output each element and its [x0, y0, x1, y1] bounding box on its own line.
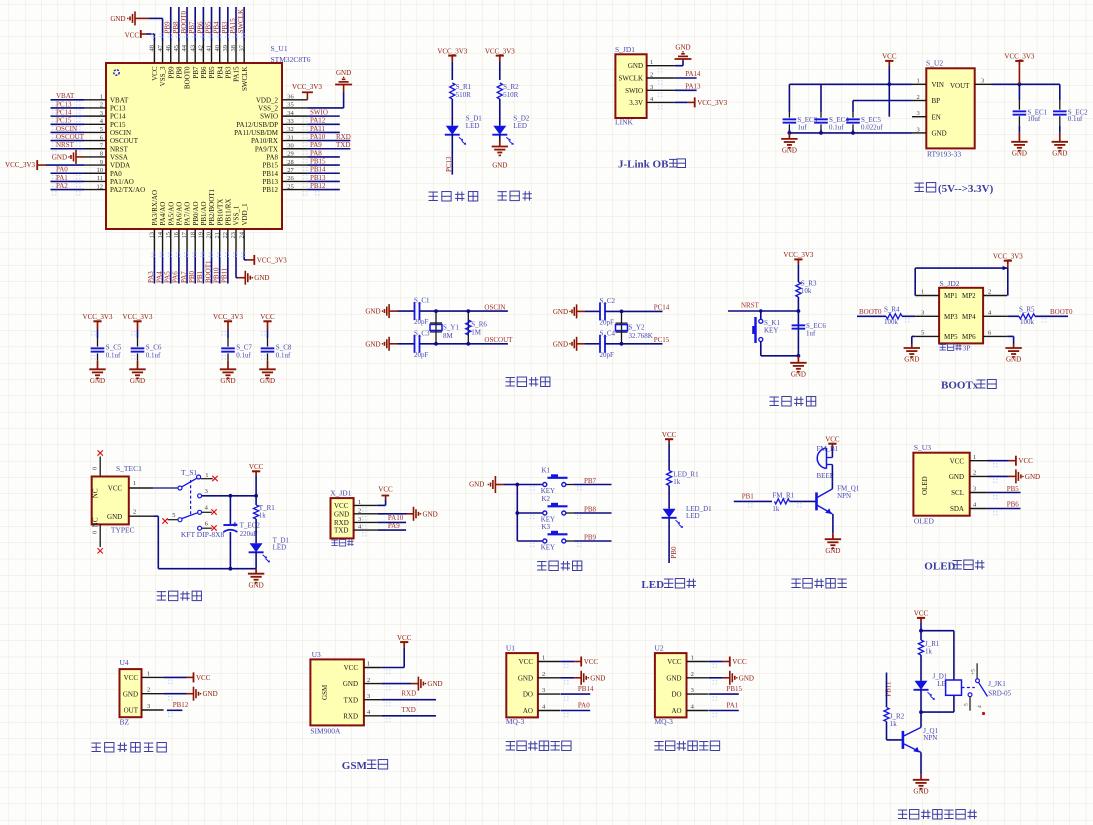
svg-text:MP6: MP6	[962, 333, 976, 341]
svg-text:KFT DIP-8X8: KFT DIP-8X8	[181, 530, 225, 539]
svg-text:PA0: PA0	[578, 701, 590, 709]
svg-text:GND: GND	[666, 674, 681, 682]
svg-text:T_EC2: T_EC2	[240, 522, 261, 530]
svg-text:VCC: VCC	[950, 457, 965, 465]
svg-text:GND: GND	[782, 147, 797, 155]
svg-text:GND: GND	[932, 130, 947, 138]
svg-text:GND: GND	[365, 340, 380, 348]
svg-text:PB9: PB9	[167, 66, 175, 79]
svg-text:2: 2	[133, 508, 136, 515]
svg-text:PA12: PA12	[310, 117, 326, 125]
svg-text:S_R6: S_R6	[471, 321, 487, 329]
svg-text:BZ: BZ	[120, 718, 130, 727]
svg-text:20: 20	[206, 232, 213, 239]
svg-text:LED: LED	[513, 122, 527, 130]
svg-text:24: 24	[238, 231, 245, 238]
svg-text:VCC: VCC	[378, 486, 393, 494]
svg-text:3: 3	[367, 693, 370, 700]
svg-text:0.1uf: 0.1uf	[106, 351, 121, 359]
svg-text:5: 5	[172, 512, 175, 519]
svg-text:GND: GND	[518, 674, 533, 682]
svg-text:VCC: VCC	[732, 658, 747, 666]
svg-text:1uf: 1uf	[806, 330, 816, 338]
svg-text:2: 2	[100, 102, 103, 109]
svg-text:15: 15	[165, 232, 172, 239]
svg-text:VCC: VCC	[519, 658, 534, 666]
svg-text:VCC_3V3: VCC_3V3	[213, 313, 243, 321]
svg-text:19: 19	[198, 232, 205, 239]
svg-text:GND: GND	[336, 69, 351, 77]
svg-text:1: 1	[133, 480, 136, 487]
svg-text:20pF: 20pF	[600, 318, 615, 326]
svg-text:K1: K1	[542, 466, 551, 474]
svg-text:S_TEC1: S_TEC1	[116, 464, 142, 473]
svg-text:PB4: PB4	[213, 21, 221, 34]
svg-text:PA1: PA1	[56, 174, 68, 182]
svg-text:VCC: VCC	[667, 658, 682, 666]
svg-text:3P: 3P	[963, 344, 971, 353]
svg-text:GSM: GSM	[321, 684, 329, 700]
svg-text:8: 8	[100, 151, 103, 158]
svg-text:OSCIN: OSCIN	[110, 129, 131, 137]
svg-text:PA12/USB/DP: PA12/USB/DP	[236, 121, 278, 129]
svg-text:VCC_3V3: VCC_3V3	[697, 99, 727, 107]
svg-text:PB0: PB0	[670, 546, 678, 559]
svg-text:VCC_3V3: VCC_3V3	[783, 251, 813, 259]
svg-text:16: 16	[173, 231, 180, 238]
svg-text:0: 0	[92, 467, 99, 470]
svg-text:PB10: PB10	[212, 267, 220, 283]
svg-text:OSCOUT: OSCOUT	[110, 137, 139, 145]
svg-text:3: 3	[205, 488, 208, 495]
svg-text:PB15: PB15	[310, 157, 326, 165]
svg-text:SCL: SCL	[951, 489, 964, 497]
svg-text:2: 2	[973, 470, 976, 477]
svg-text:NC: NC	[92, 517, 100, 527]
svg-text:S_R1: S_R1	[456, 83, 472, 91]
svg-text:100k: 100k	[884, 318, 899, 326]
svg-text:0.1uf: 0.1uf	[829, 123, 844, 131]
svg-text:GND: GND	[825, 547, 840, 555]
svg-text:RXD: RXD	[336, 133, 351, 141]
svg-text:SWIO: SWIO	[625, 87, 643, 95]
svg-text:FM_R1: FM_R1	[772, 492, 794, 500]
svg-text:2: 2	[358, 507, 361, 514]
svg-text:PC15: PC15	[56, 117, 72, 125]
svg-text:PC13: PC13	[110, 105, 126, 113]
svg-text:2: 2	[691, 671, 694, 678]
svg-text:5: 5	[100, 126, 103, 133]
svg-text:BOOTx: BOOTx	[941, 380, 979, 392]
svg-text:GND: GND	[739, 674, 754, 682]
svg-text:PA10: PA10	[310, 133, 326, 141]
svg-text:LED: LED	[466, 122, 480, 130]
svg-text:RT9193-33: RT9193-33	[927, 149, 961, 158]
svg-text:PA9: PA9	[310, 141, 322, 149]
svg-text:PA6: PA6	[172, 271, 180, 283]
svg-text:100k: 100k	[1020, 318, 1035, 326]
svg-text:10k: 10k	[801, 287, 812, 295]
svg-text:1: 1	[358, 499, 361, 506]
svg-text:GND: GND	[220, 377, 235, 385]
svg-text:VSS_1: VSS_1	[233, 205, 241, 225]
svg-text:PB9: PB9	[584, 534, 597, 542]
svg-text:10: 10	[97, 167, 104, 174]
svg-text:VDDA: VDDA	[110, 162, 130, 170]
svg-text:VCC_3V3: VCC_3V3	[292, 83, 322, 91]
svg-text:LED: LED	[273, 544, 287, 552]
svg-text:OSCIN: OSCIN	[484, 303, 505, 311]
svg-text:BOOT1: BOOT1	[204, 260, 212, 283]
svg-text:GND: GND	[107, 513, 122, 521]
svg-text:OLED: OLED	[924, 561, 955, 573]
svg-text:VCC: VCC	[397, 634, 412, 642]
svg-text:U3: U3	[312, 650, 321, 659]
svg-text:21: 21	[214, 232, 221, 239]
svg-text:VDD_1: VDD_1	[241, 203, 249, 226]
svg-text:VCC_3V3: VCC_3V3	[257, 256, 287, 264]
svg-text:NRST: NRST	[110, 145, 129, 153]
svg-text:29: 29	[287, 151, 294, 158]
svg-text:PC13: PC13	[445, 156, 453, 172]
svg-text:BOOT0: BOOT0	[1050, 308, 1073, 316]
svg-text:VCC_3V3: VCC_3V3	[123, 313, 153, 321]
svg-text:BP: BP	[932, 97, 941, 105]
svg-text:14: 14	[157, 231, 164, 238]
svg-text:41: 41	[206, 45, 213, 52]
svg-text:T_S1: T_S1	[181, 468, 198, 477]
svg-text:LED: LED	[641, 579, 664, 591]
svg-text:PC14: PC14	[110, 113, 126, 121]
svg-text:1: 1	[367, 661, 370, 668]
svg-text:U2: U2	[655, 644, 664, 653]
svg-text:SWCLK: SWCLK	[237, 9, 245, 34]
svg-text:13: 13	[149, 232, 156, 239]
svg-text:VDD_2: VDD_2	[256, 96, 279, 104]
svg-text:BEEP: BEEP	[817, 472, 834, 480]
svg-text:VOUT: VOUT	[950, 82, 970, 90]
svg-text:0: 0	[92, 531, 99, 534]
svg-text:S_JD1: S_JD1	[615, 45, 635, 54]
svg-text:PB7: PB7	[192, 66, 200, 79]
svg-text:PB5: PB5	[205, 21, 213, 34]
svg-text:VSS_3: VSS_3	[159, 66, 167, 86]
svg-text:GND: GND	[260, 377, 275, 385]
svg-text:SRD-05: SRD-05	[988, 690, 1011, 698]
svg-text:K2: K2	[542, 495, 551, 503]
svg-text:0.1uf: 0.1uf	[236, 351, 251, 359]
svg-text:PA9: PA9	[388, 522, 400, 530]
svg-text:BOOT0: BOOT0	[859, 308, 882, 316]
svg-text:J-Link OB: J-Link OB	[618, 159, 669, 171]
svg-text:SWIO: SWIO	[310, 109, 328, 117]
svg-text:PA6/AO: PA6/AO	[175, 202, 183, 226]
svg-text:TXD: TXD	[336, 141, 350, 149]
svg-text:20pF: 20pF	[414, 351, 429, 359]
svg-text:PA2/TX/AO: PA2/TX/AO	[110, 186, 145, 194]
svg-text:GND: GND	[334, 510, 349, 518]
svg-text:1k: 1k	[890, 720, 898, 728]
svg-text:VCC: VCC	[334, 502, 349, 510]
svg-text:PA15: PA15	[233, 66, 241, 82]
svg-text:32.768K: 32.768K	[629, 332, 653, 340]
svg-text:1: 1	[691, 655, 694, 662]
svg-text:GND: GND	[1006, 356, 1021, 364]
svg-text:42: 42	[198, 45, 205, 52]
svg-text:DO: DO	[523, 691, 533, 699]
svg-text:VBAT: VBAT	[110, 96, 129, 104]
svg-text:S_C4: S_C4	[600, 329, 616, 337]
svg-text:36: 36	[287, 94, 294, 101]
svg-text:GND: GND	[423, 510, 438, 518]
svg-text:LED: LED	[686, 512, 700, 520]
svg-text:NPN: NPN	[837, 492, 851, 500]
svg-text:PC13: PC13	[56, 100, 72, 108]
svg-text:PB11/RX: PB11/RX	[224, 199, 232, 226]
svg-text:PB6: PB6	[1007, 501, 1020, 509]
svg-text:1: 1	[921, 289, 924, 296]
svg-text:46: 46	[165, 44, 172, 51]
svg-text:SIM900A: SIM900A	[310, 727, 341, 736]
svg-text:PB14: PB14	[578, 685, 594, 693]
svg-text:PB12: PB12	[262, 186, 278, 194]
svg-text:PA7/AO: PA7/AO	[184, 202, 192, 226]
svg-text:DO: DO	[671, 691, 681, 699]
svg-text:PB3: PB3	[224, 66, 232, 79]
svg-text:PA11/USB/DM: PA11/USB/DM	[234, 129, 279, 137]
svg-text:PC14: PC14	[56, 109, 72, 117]
svg-text:SWCLK: SWCLK	[241, 67, 249, 92]
svg-text:SDA: SDA	[950, 505, 964, 513]
svg-text:1: 1	[917, 78, 920, 85]
svg-text:GND: GND	[904, 356, 919, 364]
svg-text:45: 45	[173, 45, 180, 52]
svg-text:VCC: VCC	[662, 431, 677, 439]
svg-text:PA7: PA7	[180, 271, 188, 283]
svg-text:VCC: VCC	[151, 66, 159, 81]
svg-text:PB8: PB8	[172, 21, 180, 34]
svg-text:38: 38	[230, 45, 237, 52]
svg-text:MQ-3: MQ-3	[655, 717, 674, 726]
svg-text:VCC_3V3: VCC_3V3	[5, 161, 35, 169]
svg-text:1: 1	[973, 454, 976, 461]
svg-text:PA1: PA1	[727, 701, 739, 709]
svg-text:S_U2: S_U2	[926, 59, 943, 68]
svg-text:GSM: GSM	[342, 760, 368, 772]
svg-text:PA0: PA0	[56, 166, 68, 174]
svg-text:GND: GND	[110, 15, 125, 23]
svg-text:J_JK1: J_JK1	[988, 680, 1006, 688]
svg-text:S_U1: S_U1	[271, 44, 288, 53]
svg-text:2: 2	[542, 671, 545, 678]
svg-text:PC14: PC14	[654, 304, 670, 312]
svg-text:PA1/AO: PA1/AO	[110, 178, 134, 186]
svg-text:PA11: PA11	[310, 125, 326, 133]
svg-text:S_JD2: S_JD2	[940, 279, 960, 288]
svg-text:3: 3	[100, 110, 103, 117]
svg-text:2: 2	[367, 677, 370, 684]
svg-text:OUT: OUT	[124, 707, 139, 715]
svg-text:PA13: PA13	[685, 83, 701, 91]
svg-text:SWIO: SWIO	[260, 113, 278, 121]
svg-text:VCC_3V3: VCC_3V3	[83, 313, 113, 321]
svg-text:(5V-->3.3V): (5V-->3.3V)	[938, 183, 994, 195]
svg-text:47: 47	[157, 44, 164, 51]
svg-text:GND: GND	[553, 308, 568, 316]
svg-text:VCC: VCC	[344, 664, 359, 672]
svg-text:PA10: PA10	[388, 514, 404, 522]
svg-text:BOOT0: BOOT0	[180, 10, 188, 33]
svg-text:PB14: PB14	[262, 170, 278, 178]
svg-text:RXD: RXD	[343, 712, 358, 720]
svg-text:VCC_3V3: VCC_3V3	[1004, 53, 1034, 61]
svg-text:2: 2	[917, 94, 920, 101]
svg-text:KEY: KEY	[541, 544, 555, 552]
svg-text:VCC: VCC	[108, 485, 123, 493]
svg-text:S_Y2: S_Y2	[629, 324, 645, 332]
svg-text:PA14: PA14	[685, 70, 701, 78]
svg-text:NPN: NPN	[923, 734, 937, 742]
svg-text:VCC_3V3: VCC_3V3	[993, 253, 1023, 261]
svg-text:K3: K3	[542, 523, 551, 531]
svg-text:1k: 1k	[259, 512, 267, 520]
svg-text:3: 3	[358, 516, 361, 523]
svg-text:MP5: MP5	[944, 333, 958, 341]
svg-text:S_U3: S_U3	[914, 443, 931, 452]
svg-text:OSCOUT: OSCOUT	[56, 133, 85, 141]
svg-text:9: 9	[100, 159, 103, 166]
svg-text:VCC: VCC	[584, 658, 599, 666]
svg-text:27: 27	[287, 167, 294, 174]
svg-text:GND: GND	[52, 153, 67, 161]
svg-text:GND: GND	[1052, 149, 1067, 157]
svg-text:PB6: PB6	[200, 66, 208, 79]
svg-text:2: 2	[650, 72, 653, 79]
svg-text:PB7: PB7	[584, 477, 597, 485]
svg-text:PB8: PB8	[584, 506, 597, 514]
svg-text:40: 40	[214, 45, 221, 52]
svg-text:VCC: VCC	[825, 436, 840, 444]
svg-text:S_C2: S_C2	[600, 297, 616, 305]
svg-text:NRST: NRST	[56, 141, 75, 149]
svg-text:0.1uf: 0.1uf	[1068, 115, 1083, 123]
svg-text:PA9/TX: PA9/TX	[255, 145, 278, 153]
svg-text:32: 32	[287, 126, 294, 133]
svg-text:GND: GND	[90, 377, 105, 385]
svg-text:GND: GND	[365, 308, 380, 316]
svg-text:18: 18	[189, 232, 196, 239]
svg-text:PB6: PB6	[196, 21, 204, 34]
svg-text:17: 17	[181, 231, 188, 238]
svg-text:220uF: 220uF	[240, 530, 258, 538]
svg-text:OSCIN: OSCIN	[56, 125, 77, 133]
svg-text:1k: 1k	[925, 648, 933, 656]
svg-text:PB9: PB9	[164, 21, 172, 34]
svg-text:MP4: MP4	[962, 313, 976, 321]
svg-text:3.3V: 3.3V	[629, 99, 643, 107]
svg-text:28: 28	[287, 159, 294, 166]
svg-text:GND: GND	[949, 473, 964, 481]
svg-text:20pF: 20pF	[414, 318, 429, 326]
svg-text:1k: 1k	[772, 505, 780, 513]
svg-text:37: 37	[238, 44, 245, 51]
svg-text:PB12: PB12	[310, 182, 326, 190]
svg-text:PB7: PB7	[188, 21, 196, 34]
svg-text:OSCOUT: OSCOUT	[484, 336, 513, 344]
svg-text:TXD: TXD	[401, 706, 415, 714]
svg-text:PA4: PA4	[155, 271, 163, 283]
svg-text:GND: GND	[123, 690, 138, 698]
svg-text:PB0/AO: PB0/AO	[192, 201, 200, 225]
svg-text:S_C1: S_C1	[414, 297, 430, 305]
svg-text:VCC: VCC	[249, 463, 264, 471]
svg-text:PB14: PB14	[310, 166, 326, 174]
svg-text:1: 1	[650, 59, 653, 66]
svg-text:23: 23	[230, 232, 237, 239]
svg-text:S_R4: S_R4	[884, 306, 900, 314]
svg-text:PB3: PB3	[221, 21, 229, 34]
svg-text:VSS_2: VSS_2	[258, 105, 278, 113]
svg-text:0.022uf: 0.022uf	[861, 123, 883, 131]
svg-text:AO: AO	[523, 707, 533, 715]
svg-text:NRST: NRST	[741, 302, 760, 310]
svg-text:MP3: MP3	[944, 313, 958, 321]
svg-text:1uf: 1uf	[797, 123, 807, 131]
svg-text:S_Y1: S_Y1	[443, 323, 459, 331]
svg-text:VSSA: VSSA	[110, 154, 128, 162]
svg-text:25: 25	[287, 183, 294, 190]
svg-text:GND: GND	[130, 377, 145, 385]
svg-text:PB8: PB8	[175, 66, 183, 79]
svg-text:VCC: VCC	[260, 313, 275, 321]
svg-text:S_R2: S_R2	[503, 83, 519, 91]
svg-text:43: 43	[189, 45, 196, 52]
svg-text:1: 1	[542, 655, 545, 662]
svg-text:GND: GND	[254, 274, 269, 282]
svg-text:X_JD1: X_JD1	[330, 489, 352, 498]
svg-text:GND: GND	[675, 44, 690, 52]
svg-text:39: 39	[222, 45, 229, 52]
svg-text:4: 4	[977, 705, 983, 708]
svg-text:GND: GND	[590, 674, 605, 682]
svg-text:48: 48	[149, 45, 156, 52]
svg-text:30: 30	[287, 142, 294, 149]
svg-text:5: 5	[921, 329, 924, 336]
svg-text:FM_B1: FM_B1	[817, 445, 839, 453]
svg-text:GND: GND	[553, 340, 568, 348]
svg-text:0.1uf: 0.1uf	[146, 351, 161, 359]
svg-text:VCC: VCC	[125, 32, 140, 40]
svg-text:PA5/AO: PA5/AO	[167, 202, 175, 226]
svg-text:GND: GND	[1025, 473, 1040, 481]
svg-text:3: 3	[973, 486, 976, 493]
svg-text:35: 35	[287, 102, 294, 109]
svg-text:TXD: TXD	[334, 527, 348, 535]
svg-text:MQ-3: MQ-3	[506, 717, 525, 726]
svg-text:3: 3	[917, 110, 920, 117]
svg-text:PA15: PA15	[229, 18, 237, 34]
svg-text:EN: EN	[932, 113, 941, 121]
svg-text:PC15: PC15	[654, 336, 670, 344]
svg-text:2: 2	[988, 289, 991, 296]
svg-text:GND: GND	[492, 162, 507, 170]
svg-text:2: 2	[147, 687, 150, 694]
svg-text:MP2: MP2	[962, 292, 976, 300]
svg-text:BOOT0: BOOT0	[184, 66, 192, 89]
svg-text:VCC: VCC	[124, 674, 139, 682]
svg-text:LINK: LINK	[615, 118, 633, 127]
svg-text:1: 1	[205, 472, 208, 479]
